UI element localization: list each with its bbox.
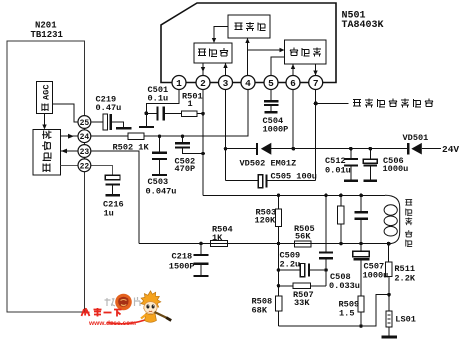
node C501 left <box>144 111 148 115</box>
wire R502 to pin4 corner (rail y=136) <box>144 90 248 137</box>
capacitor C508 0.033u <box>319 251 333 253</box>
ground end bar of C218 <box>194 275 209 277</box>
svg-text:68K: 68K <box>252 306 268 316</box>
capacitor C506 1000u (electrolytic) <box>369 149 371 159</box>
resistor R502 1K <box>128 133 144 140</box>
block 泵电源 (pump power) inside N501 <box>285 40 327 64</box>
bottom feedback rail y=243.5 <box>139 243 389 245</box>
svg-text:1000u: 1000u <box>383 164 409 174</box>
svg-text:R511: R511 <box>394 264 415 274</box>
node C218 tap <box>199 242 203 246</box>
svg-text:22: 22 <box>80 162 90 171</box>
ground end bar of C219 <box>116 127 132 129</box>
svg-text:C505 100u: C505 100u <box>271 172 317 182</box>
svg-text:2.2K: 2.2K <box>394 274 415 284</box>
resistor R501 1 <box>182 111 198 117</box>
wire pin 3 to output block (arrow up) <box>225 63 227 76</box>
svg-text:120K: 120K <box>255 216 276 226</box>
pin 5 <box>264 76 278 90</box>
pin circles of N501 (1-7) <box>172 76 323 90</box>
ground end bar of C512 <box>344 179 358 181</box>
wire pump power to pin 7 (arrow down) <box>315 64 317 76</box>
wire pin 4 to driver block (arrow up) <box>247 38 249 76</box>
wire sawtooth block to pin 22 <box>61 164 79 166</box>
text 场输出 in output block <box>198 48 228 57</box>
svg-text:1K: 1K <box>212 233 223 243</box>
24V rail from pin6 junction to VD501 and 24V <box>293 148 408 150</box>
coil loop 1 <box>384 205 397 215</box>
wire pin 6 to pump power (arrow up) <box>292 64 294 76</box>
ghost gray character 片 <box>135 297 141 306</box>
svg-text:0.047u: 0.047u <box>146 187 177 197</box>
capacitor C505 100u (electrolytic) <box>258 175 262 188</box>
mascot face <box>144 302 157 314</box>
wire pin23 feedback drop to bottom rail <box>91 151 139 244</box>
red-orange seal logo circle <box>115 294 132 311</box>
resistor R505 56K inline <box>295 241 312 247</box>
wire 场AGC out to pin 25 <box>52 104 78 122</box>
capacitor C501 0.1u <box>146 112 181 114</box>
node R503 top <box>277 194 281 198</box>
svg-text:3: 3 <box>223 78 229 89</box>
wire pin 23 into sawtooth block (arrow left) <box>61 150 78 152</box>
mascot body <box>145 313 157 322</box>
node C507 top <box>359 242 363 246</box>
ground bar below C501 <box>139 126 154 128</box>
wire pin 2 vertical down to bottom rail <box>202 90 204 196</box>
mascot mouth/cheek <box>149 310 152 313</box>
wire C505 row: pin3 corner to C505 to pin7 line <box>226 180 259 182</box>
pin numbers N501 <box>176 78 319 89</box>
node C509 right junction <box>324 268 328 272</box>
node R507 left <box>277 284 281 288</box>
capacitor C216 1u (electrolytic) <box>105 175 120 180</box>
text 场偏转线圈 (field deflection coil) vertical <box>405 200 412 247</box>
resistor R504 1K inline <box>211 241 228 247</box>
wire pin 5 to pump power block <box>271 57 285 76</box>
svg-text:23: 23 <box>80 148 90 157</box>
resistor R511 2.2K vertical <box>388 244 390 262</box>
text 场AGC rotated in AGC block <box>42 85 52 112</box>
svg-text:5: 5 <box>268 78 274 89</box>
ground end bar of C503 <box>152 174 167 176</box>
capacitor C512 0.01u <box>350 149 352 158</box>
node C502 bottom to pin2 line <box>201 152 205 156</box>
middle rail y=195.3 from pin2 line to deflection coil <box>203 194 385 196</box>
capacitor C218 1500P hanging <box>200 244 202 254</box>
ground end bar of C506 <box>363 179 377 181</box>
node R511 bottom / LS01 top <box>387 293 391 297</box>
diode VD501 (cathode bar left, triangle pointing left) <box>407 143 409 155</box>
node diode left junction <box>224 147 228 151</box>
svg-text:33K: 33K <box>294 298 310 308</box>
svg-text:0.1u: 0.1u <box>148 94 169 104</box>
svg-text:470P: 470P <box>175 164 196 174</box>
wire sawtooth block to pin 24 (arrow right) <box>61 135 79 137</box>
diode VD502 EM01Z (cathode bar left, triangle pointing left) <box>226 148 257 150</box>
unlabeled resistor branch <box>340 195 342 206</box>
svg-text:25: 25 <box>80 119 90 128</box>
svg-text:0.47u: 0.47u <box>96 103 122 113</box>
node pin6/diode/24V junction <box>292 147 296 151</box>
svg-text:TA8403K: TA8403K <box>342 20 384 31</box>
pin circles of N201 (25,24,23,22) <box>78 116 91 172</box>
wire driver to output block (arrow down) <box>214 27 228 41</box>
capacitor C504 1000P below pin 5 <box>270 90 272 101</box>
pin 2 <box>196 76 210 90</box>
label N201 <box>31 21 64 41</box>
coil loop 3 <box>384 226 397 236</box>
pin 4 <box>241 76 255 90</box>
svg-text:LS01: LS01 <box>395 315 416 325</box>
node field retrace pulse output <box>314 101 318 105</box>
pin numbers N201 <box>80 119 90 171</box>
ground symbol below LS01 <box>382 336 398 339</box>
IC N201 TB1231 block outline <box>7 41 85 312</box>
node R501/pin2 junction <box>201 112 205 116</box>
svg-text:56K: 56K <box>295 232 311 242</box>
svg-text:AGC: AGC <box>42 85 52 100</box>
node cap branch top <box>359 194 363 198</box>
pin 1 <box>172 76 186 90</box>
mascot arm + brush <box>155 312 168 318</box>
capacitor C507 1000u (electrolytic) <box>360 244 362 251</box>
mascot: spiky hair <box>141 291 161 311</box>
svg-text:R502 1K: R502 1K <box>113 143 150 153</box>
svg-text:C503: C503 <box>148 177 169 187</box>
wire pin 1 down-left to C501/ground <box>146 90 179 127</box>
resistor R509 1.5 vertical <box>358 296 364 312</box>
cap branch (top cap of C507 chain) <box>360 195 362 211</box>
wire pin 24 to R502 <box>91 135 128 137</box>
end bar of C504 <box>265 111 278 113</box>
pin 6 <box>286 76 300 90</box>
svg-text:N201: N201 <box>35 21 57 31</box>
node resistor branch top <box>339 194 343 198</box>
resistor R503 120K vertical <box>278 195 280 209</box>
capacitor C503 0.047u hanging from rail <box>159 136 161 151</box>
deflection coil outline (场偏转线圈) <box>385 195 400 243</box>
text 场激励 in driver block <box>235 22 266 31</box>
resistor R507 33K horizontal <box>279 285 294 287</box>
red text 维库一下 <box>82 308 122 317</box>
capacitor C502 470P hanging from rail <box>182 136 184 142</box>
svg-text:24V: 24V <box>442 144 459 155</box>
pin 24 <box>78 130 91 143</box>
svg-text:0.01u: 0.01u <box>325 166 351 176</box>
wire output block to pin 2 (arrow down) <box>202 63 204 76</box>
node C503 tap <box>158 134 162 138</box>
svg-text:VD501: VD501 <box>403 133 429 143</box>
coil loop 2 <box>384 216 397 226</box>
capacitor C219 0.47u (electrolytic) <box>103 114 108 130</box>
wire 场AGC to sawtooth block arrow <box>44 114 46 127</box>
text 场锯齿波 rotated in sawtooth block <box>42 131 51 172</box>
capacitor C509 2.2u (electrolytic horizontal) <box>279 269 301 271</box>
pin 3 <box>219 76 233 90</box>
red underline swoosh <box>107 319 149 324</box>
svg-text:1000P: 1000P <box>263 125 289 135</box>
svg-text:24: 24 <box>80 133 90 142</box>
pin 23 <box>78 145 91 158</box>
svg-text:C512: C512 <box>325 156 346 166</box>
text 场逆程脉冲输出 (field retrace pulse output) <box>353 99 433 108</box>
svg-text:1.5: 1.5 <box>339 309 354 319</box>
svg-text:2.2u: 2.2u <box>280 259 301 269</box>
C508 branch vertical from rail <box>325 195 327 251</box>
node coil bottom <box>387 242 391 246</box>
block 场激励 (field driver) inside N501 <box>228 15 270 38</box>
wire pin 3 vertical down <box>225 90 227 181</box>
svg-text:6: 6 <box>290 78 296 89</box>
wire pin 6 vertical down to 24V rail <box>292 90 294 149</box>
node C509 left <box>277 268 281 272</box>
IC N501 TA8403K block outline <box>161 3 336 83</box>
svg-text:7: 7 <box>313 78 319 89</box>
node resistor bottom <box>339 242 343 246</box>
resistor R508 68K vertical <box>276 296 282 311</box>
wire pin 25 to C219 <box>91 121 103 123</box>
ground return rail y=326 <box>279 295 390 326</box>
wire pin 7 vertical down through retrace node to C505 line <box>315 90 317 181</box>
svg-text:0.033u: 0.033u <box>329 281 360 291</box>
wire to retrace label <box>316 102 349 104</box>
node R509 bottom <box>359 324 363 328</box>
pin 7 <box>309 76 323 90</box>
vertical R503-R508 feedback column <box>278 244 280 297</box>
svg-text:TB1231: TB1231 <box>31 30 64 40</box>
ground end bar of C216 <box>105 194 120 196</box>
svg-text:1u: 1u <box>104 209 114 219</box>
mascot eyes <box>146 305 149 309</box>
pin 25 <box>78 116 91 129</box>
svg-text:1500P: 1500P <box>169 262 195 272</box>
wire pin 22 to C216 <box>91 165 113 174</box>
node C508 branch top <box>324 194 328 198</box>
text 泵电源 in pump power block <box>290 48 321 57</box>
node C512 tap <box>349 147 353 151</box>
svg-text:2: 2 <box>200 78 206 89</box>
LS01 component <box>388 295 390 311</box>
node C502 tap <box>181 134 185 138</box>
svg-text:VD502 EM01Z: VD502 EM01Z <box>240 159 297 169</box>
node C506 tap <box>369 147 373 151</box>
svg-text:C218: C218 <box>172 252 193 262</box>
svg-text:1000u: 1000u <box>363 271 389 281</box>
watermark group (dzsc.com logo + mascot) <box>82 291 172 327</box>
block 场AGC (field AGC) inside N201 <box>37 81 53 113</box>
node R503 bottom <box>277 242 281 246</box>
label N501 <box>342 11 384 32</box>
wire pin 4 branch to pump power (arrow right) <box>248 49 283 51</box>
svg-text:4: 4 <box>245 78 251 89</box>
block 场锯齿波 (field sawtooth) inside N201 <box>33 130 61 176</box>
pin 22 <box>78 159 91 172</box>
svg-text:1: 1 <box>176 78 182 89</box>
svg-text:1: 1 <box>188 99 193 109</box>
ghost gray character 找 <box>105 298 116 306</box>
block 场输出 (field output) inside N501 <box>194 43 232 63</box>
